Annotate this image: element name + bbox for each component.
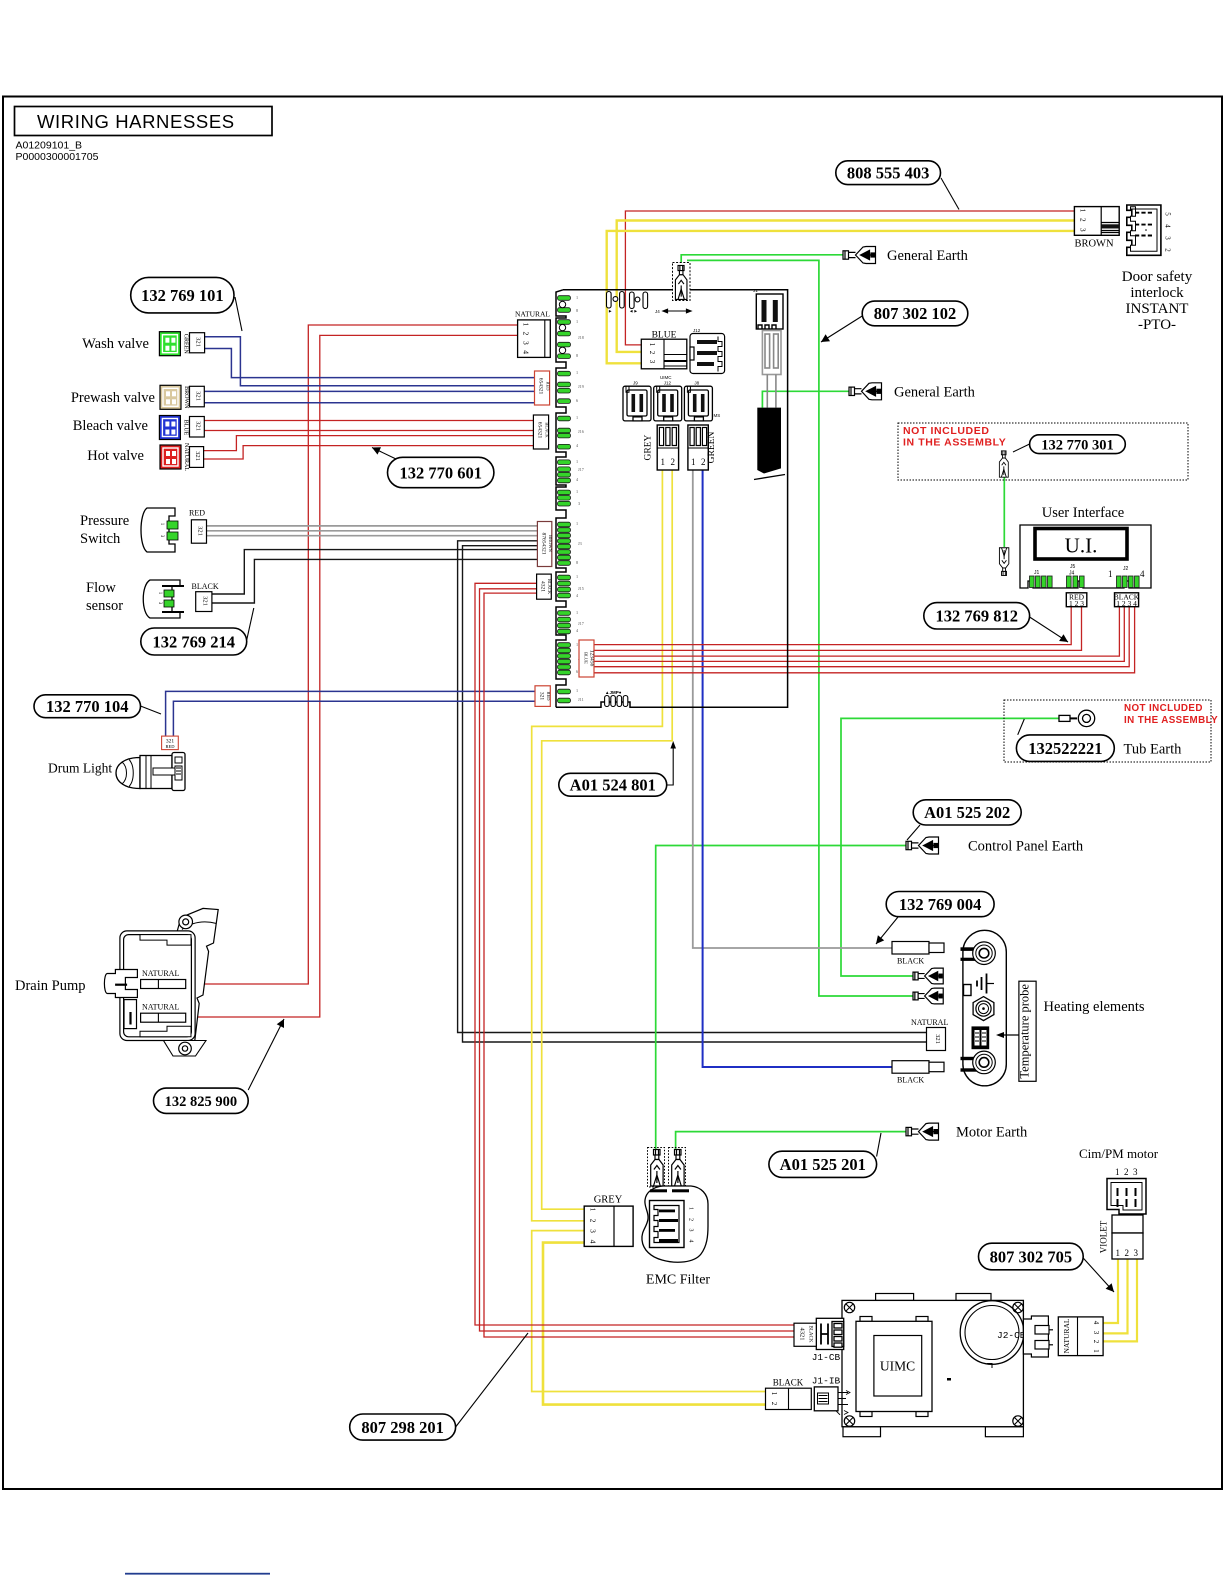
svg-text:3: 3 <box>1079 228 1088 232</box>
svg-text:2: 2 <box>1164 248 1172 252</box>
receptacle BLACK blue-wire <box>892 1061 944 1074</box>
svg-text:1: 1 <box>1108 569 1113 579</box>
svg-text:NATURAL: NATURAL <box>911 1018 948 1027</box>
svg-text:RED: RED <box>166 744 176 749</box>
svg-text:NOT INCLUDED: NOT INCLUDED <box>903 425 990 437</box>
svg-text:NOT INCLUDED: NOT INCLUDED <box>1124 703 1203 714</box>
svg-text:3: 3 <box>589 1229 598 1233</box>
svg-text:2: 2 <box>1124 1167 1129 1177</box>
board earth plate (black) <box>757 408 781 474</box>
svg-text:J4: J4 <box>1069 571 1075 577</box>
svg-text:Temperature probe: Temperature probe <box>1018 984 1032 1079</box>
board pin hole circles <box>559 301 565 353</box>
svg-text:1: 1 <box>576 574 578 579</box>
svg-text:1: 1 <box>661 457 666 467</box>
flow sensor pin box 321 <box>196 592 212 612</box>
connector BLACK 4321 j1cb <box>794 1323 816 1346</box>
svg-text:4321: 4321 <box>799 1328 806 1341</box>
leader 808 555 403 <box>941 178 959 210</box>
svg-text:Bleach valve: Bleach valve <box>73 418 148 434</box>
leader 132522221 <box>1018 719 1025 735</box>
board connector below J1 <box>762 331 781 408</box>
part oval 132 769 004 <box>886 892 994 917</box>
title box WIRING HARNESSES <box>15 107 273 136</box>
svg-text:U.I.: U.I. <box>1065 534 1098 558</box>
plug terminal up (mates UI) <box>999 548 1008 576</box>
uimc connector J1-IB <box>814 1387 850 1415</box>
plug terminal down (132 770 301) <box>999 451 1008 477</box>
svg-text:BLUE: BLUE <box>652 331 677 341</box>
svg-text:2: 2 <box>1125 1248 1130 1258</box>
bleach valve pin box 321 <box>190 417 205 438</box>
svg-text:132 769 812: 132 769 812 <box>935 607 1018 626</box>
svg-text:Control Panel Earth: Control Panel Earth <box>968 839 1084 855</box>
svg-text:J17: J17 <box>578 621 584 626</box>
svg-text:NATURAL: NATURAL <box>515 310 550 319</box>
control panel earth terminal <box>906 837 939 854</box>
wash valve icon <box>159 332 180 356</box>
svg-text:8: 8 <box>576 560 578 565</box>
svg-text:BLACK: BLACK <box>897 957 924 966</box>
svg-text:BLACK: BLACK <box>545 422 550 438</box>
hot valve pin box 321 <box>190 447 204 468</box>
ring terminal tub earth <box>1059 710 1095 726</box>
svg-text:321: 321 <box>194 451 201 461</box>
UI connector RED 123 <box>1066 593 1087 609</box>
drain pump icon <box>104 908 218 1056</box>
wash valve pin box 321 <box>190 333 205 353</box>
footer blue rule <box>125 1573 270 1575</box>
svg-text:J18: J18 <box>578 335 584 340</box>
svg-text:87654321: 87654321 <box>541 533 547 555</box>
connector BROWN 123 door interlock <box>1074 207 1119 250</box>
connector BLACK 654321 (valves) <box>533 415 549 449</box>
svg-text:1: 1 <box>576 688 578 693</box>
svg-text:BLACK: BLACK <box>773 1378 804 1388</box>
svg-text:1: 1 <box>691 457 696 467</box>
UI pins J2 group <box>1117 576 1140 588</box>
svg-text:NATURAL: NATURAL <box>1062 1318 1071 1353</box>
wire green tub earth to heating <box>841 718 1059 976</box>
bleach valve icon <box>159 416 180 440</box>
svg-text:IN THE ASSEMBLY: IN THE ASSEMBLY <box>903 437 1006 449</box>
svg-text:1: 1 <box>688 1207 694 1210</box>
svg-text:3: 3 <box>578 501 580 506</box>
leader A01 524 801 <box>667 744 674 785</box>
svg-text:2: 2 <box>589 1219 598 1223</box>
svg-text:J12: J12 <box>693 328 701 333</box>
connector BROWN 87654321 (pressure/flow) <box>537 522 553 567</box>
svg-text:►: ► <box>608 309 612 314</box>
wire red UI bundle 2 <box>594 607 1082 651</box>
svg-text:3: 3 <box>648 360 656 364</box>
svg-text:GREEN: GREEN <box>707 432 717 464</box>
board fuse (dashed) <box>673 263 691 301</box>
svg-text:Prewash valve: Prewash valve <box>71 390 155 406</box>
leader 132 770 104 <box>141 706 162 714</box>
svg-text:RED: RED <box>546 382 551 392</box>
svg-text:◄►: ◄► <box>629 309 638 314</box>
UI pins J5/J4 group <box>1067 576 1085 588</box>
wire red UI bundle 5 <box>594 607 1129 667</box>
svg-text:6: 6 <box>576 669 578 674</box>
wire grey pressure switch 2 <box>207 530 538 532</box>
svg-text:1: 1 <box>576 295 578 300</box>
svg-text:1: 1 <box>576 319 578 324</box>
heating earth spade 1 <box>913 968 943 984</box>
svg-text:654321: 654321 <box>538 378 544 395</box>
wire yellow door interlock 2 <box>617 221 1075 352</box>
leader 807 302 705 <box>1083 1258 1114 1292</box>
wire red bleach valve 2 <box>204 430 536 432</box>
svg-text:Door safety: Door safety <box>1122 269 1193 285</box>
svg-text:3: 3 <box>522 341 531 345</box>
svg-text:J1: J1 <box>753 288 758 293</box>
svg-text:654321: 654321 <box>537 422 543 439</box>
svg-text:GREY: GREY <box>594 1195 623 1206</box>
svg-text:Pressure: Pressure <box>80 513 129 529</box>
wire blue prewash valve 1 <box>204 390 534 392</box>
svg-text:321: 321 <box>195 337 202 347</box>
svg-text:NATURAL: NATURAL <box>183 443 189 471</box>
svg-text:Motor Earth: Motor Earth <box>956 1125 1028 1141</box>
svg-text:3: 3 <box>1133 1167 1138 1177</box>
connector RED 654321 (valves) <box>535 371 551 405</box>
wire blue prewash valve 2 <box>204 402 534 404</box>
svg-text:2: 2 <box>522 332 531 336</box>
pressure switch icon <box>141 508 178 552</box>
svg-text:1 2 3: 1 2 3 <box>1069 599 1084 608</box>
svg-text:MS: MS <box>714 413 721 418</box>
board edge green pins <box>558 296 571 703</box>
svg-text:GREEN: GREEN <box>183 334 189 355</box>
UI display box U.I. <box>1035 529 1127 560</box>
svg-text:1: 1 <box>1116 1248 1121 1258</box>
svg-text:132522221: 132522221 <box>1028 739 1102 758</box>
leader 807 302 102 <box>821 316 862 342</box>
wire yellow motor 1 <box>1103 1259 1118 1323</box>
wire black flow sensor 1 <box>212 550 538 594</box>
svg-text:BLACK: BLACK <box>897 1076 924 1085</box>
svg-text:RED: RED <box>546 692 551 702</box>
svg-text:UIMC: UIMC <box>660 375 672 380</box>
flow sensor icon <box>143 580 184 618</box>
svg-text:4: 4 <box>1140 569 1145 579</box>
leader 132 769 812 <box>1030 617 1068 642</box>
svg-text:WIRING HARNESSES: WIRING HARNESSES <box>37 111 235 132</box>
wire yellow grey-conn 1 <box>532 470 663 1221</box>
uimc small dot <box>947 1378 951 1381</box>
wire blue green-conn pin2 to heating <box>703 470 892 1067</box>
svg-text:3: 3 <box>1092 1331 1100 1335</box>
part oval 807 302 705 <box>979 1243 1084 1270</box>
svg-text:A01 525 202: A01 525 202 <box>924 803 1010 822</box>
svg-text:4: 4 <box>589 1240 598 1244</box>
wire black flow sensor 2 <box>212 559 538 603</box>
wire natural heater feed 2 <box>463 546 927 1042</box>
part oval 807 302 102 <box>862 301 968 326</box>
svg-text:132 825 900: 132 825 900 <box>165 1094 238 1110</box>
svg-text:J19: J19 <box>578 384 584 389</box>
UI pins J1 group <box>1030 576 1053 588</box>
uimc J2-CB circle <box>960 1301 1024 1368</box>
svg-text:3: 3 <box>1134 1248 1139 1258</box>
leader 132 825 900 <box>248 1019 284 1090</box>
svg-text:BROWN: BROWN <box>1074 239 1114 250</box>
motor connector VIOLET <box>1112 1215 1143 1259</box>
wire green not-included plug link <box>1003 477 1005 547</box>
svg-text:BLUE: BLUE <box>183 420 189 436</box>
svg-text:4: 4 <box>522 350 531 354</box>
svg-text:Heating elements: Heating elements <box>1044 999 1145 1015</box>
svg-text:123456: 123456 <box>589 650 595 667</box>
wire red bleach valve 1 <box>204 420 536 422</box>
leader 132 770 301 <box>1013 444 1030 452</box>
svg-text:5: 5 <box>1164 212 1172 216</box>
heater earth symbol <box>977 974 994 994</box>
part oval A01 525 201 <box>769 1151 877 1177</box>
temperature probe arrow <box>999 1034 1019 1036</box>
wire blue drum light 2 <box>173 701 536 736</box>
svg-text:321: 321 <box>934 1034 941 1044</box>
svg-text:General Earth: General Earth <box>887 248 969 264</box>
svg-text:1: 1 <box>576 610 578 615</box>
part oval 132 770 104 <box>34 695 141 718</box>
board pin labels <box>576 295 584 702</box>
emc plug dashed 1 <box>648 1148 665 1188</box>
wire red drain pump 1 <box>186 325 518 984</box>
svg-text:BLUE: BLUE <box>584 652 589 664</box>
svg-text:1 2 3 4: 1 2 3 4 <box>1116 599 1137 608</box>
dashed box not included 1 <box>898 423 1188 480</box>
wire green fuse to heating earth <box>687 260 914 996</box>
svg-text:2: 2 <box>648 351 656 355</box>
emc filter body <box>642 1186 708 1262</box>
svg-text:J8: J8 <box>694 381 699 386</box>
svg-text:1: 1 <box>576 521 578 526</box>
wire green fuse to general earth 1 <box>681 255 844 263</box>
svg-text:132 769 004: 132 769 004 <box>899 895 982 914</box>
svg-text:1: 1 <box>576 415 578 420</box>
board connector GREY 1 2 <box>657 425 678 470</box>
svg-text:808 555 403: 808 555 403 <box>847 163 930 182</box>
part oval A01 525 202 <box>913 800 1021 825</box>
wire green motor earth <box>676 1132 906 1149</box>
svg-text:2: 2 <box>688 1218 694 1221</box>
wire yellow emc to uimc 1 <box>532 1231 766 1392</box>
part oval 132522221 <box>1016 735 1114 762</box>
UI connector BLACK 1234 <box>1114 593 1140 609</box>
svg-text:-PTO-: -PTO- <box>1138 317 1176 333</box>
wire yellow grey-conn 2 <box>542 470 673 1209</box>
wire red UI bundle 4 <box>594 607 1124 662</box>
wire red drain pump 2 <box>186 335 518 1017</box>
emc dash mark 2 <box>672 1189 689 1192</box>
svg-text:132 769 214: 132 769 214 <box>153 632 236 651</box>
svg-text:Drain Pump: Drain Pump <box>15 978 85 994</box>
wire grey pressure switch 3 <box>207 535 538 537</box>
connector NATURAL 1234 (drain pump) <box>515 310 550 358</box>
svg-text:807 302 102: 807 302 102 <box>874 304 957 323</box>
board bottom JP loops <box>605 696 610 707</box>
svg-text:1: 1 <box>1115 1167 1120 1177</box>
svg-text:4: 4 <box>688 1240 694 1243</box>
leader 132 769 004 <box>876 917 898 944</box>
svg-text:A01209101_B: A01209101_B <box>16 140 83 152</box>
svg-text:1: 1 <box>576 642 578 647</box>
svg-text:GREY: GREY <box>644 434 654 460</box>
hot valve icon <box>160 445 181 469</box>
svg-text:J17: J17 <box>578 467 584 472</box>
receptacle BLACK grey-wire <box>892 942 944 955</box>
svg-text:NATURAL: NATURAL <box>142 1003 179 1012</box>
svg-text:Tub Earth: Tub Earth <box>1124 742 1183 758</box>
emc dash mark 1 <box>650 1189 667 1192</box>
svg-text:132 770 601: 132 770 601 <box>399 463 482 482</box>
dashed box not included 2 (tub earth) <box>1004 700 1211 762</box>
heating element assembly <box>961 930 1007 1086</box>
wire yellow door interlock 3 <box>607 231 1075 363</box>
svg-text:Drum Light: Drum Light <box>48 761 112 776</box>
svg-text:BLACK: BLACK <box>808 1326 813 1343</box>
heater probe block <box>972 1026 990 1049</box>
svg-text:1: 1 <box>770 1392 778 1396</box>
leader 132 769 214 <box>247 608 254 640</box>
wire blue wash valve 1 <box>205 337 535 386</box>
svg-text:4: 4 <box>1092 1321 1100 1325</box>
svg-text:J15: J15 <box>578 586 584 591</box>
board relay K1 <box>607 292 625 309</box>
svg-text:J2-CB: J2-CB <box>997 1330 1026 1341</box>
svg-text:8: 8 <box>576 353 578 358</box>
svg-text:Cim/PM motor: Cim/PM motor <box>1079 1146 1159 1161</box>
UI pin labels <box>1034 564 1129 577</box>
motor connector top <box>1107 1179 1146 1215</box>
leader 807 298 201 <box>456 1333 528 1427</box>
svg-text:J16: J16 <box>578 429 584 434</box>
svg-text:RED: RED <box>189 509 205 518</box>
svg-text:J12: J12 <box>664 381 672 386</box>
svg-text:807 298 201: 807 298 201 <box>361 1418 444 1437</box>
wire red UI bundle 3 <box>594 607 1119 656</box>
board jumper J4 arrow <box>663 309 691 313</box>
svg-text:interlock: interlock <box>1130 285 1184 301</box>
emc inner connector <box>650 1201 685 1248</box>
leader 132 769 101 <box>235 297 242 331</box>
svg-text:J4: J4 <box>655 309 660 314</box>
svg-text:J11: J11 <box>578 697 584 702</box>
svg-text:INSTANT: INSTANT <box>1126 301 1189 317</box>
svg-text:321: 321 <box>539 692 545 701</box>
board connector J1 <box>756 294 783 329</box>
svg-text:321: 321 <box>195 391 202 401</box>
board connector BLUE <box>641 331 687 369</box>
svg-text:J1-CB: J1-CB <box>812 1352 841 1363</box>
part oval A01 524 801 <box>559 773 667 796</box>
svg-text:P0000300001705: P0000300001705 <box>16 151 99 163</box>
drum light pin box 321 RED <box>162 736 179 750</box>
connector BLACK 4321 (uimc reds) <box>537 574 552 599</box>
part oval 807 298 201 <box>350 1414 456 1440</box>
svg-text:2: 2 <box>701 457 706 467</box>
part oval 132 770 601 <box>388 457 494 487</box>
wire yellow emc to uimc 2 <box>543 1243 766 1405</box>
wire red UI bundle 1 <box>594 607 1071 645</box>
main control board outline <box>556 290 566 708</box>
uimc board <box>842 1294 1023 1437</box>
pressure switch pin box 321 <box>191 520 206 543</box>
temperature probe box <box>1019 981 1036 1081</box>
svg-text:J5: J5 <box>1070 564 1076 570</box>
leader 132 770 601 <box>372 448 396 460</box>
wire red uimc j1cb 1 <box>475 583 794 1325</box>
svg-text:sensor: sensor <box>86 598 123 614</box>
svg-text:3: 3 <box>688 1229 694 1232</box>
heating earth spade 2 <box>913 988 943 1004</box>
connector NATURAL 1234 motor <box>1058 1317 1103 1356</box>
svg-text:UIMC: UIMC <box>880 1359 915 1374</box>
part oval 132 769 101 <box>131 277 234 313</box>
connector BLUE 123456 (UI bundle) <box>579 640 595 677</box>
svg-text:J1: J1 <box>1034 570 1040 576</box>
wire blue wash valve 2 <box>205 349 535 378</box>
connector GREY 1234 (emc) <box>584 1195 633 1247</box>
svg-text:Wash valve: Wash valve <box>82 336 149 352</box>
uimc screws <box>844 1302 854 1312</box>
part oval 132 769 812 <box>924 603 1030 629</box>
wire yellow motor 2 <box>1103 1259 1127 1333</box>
svg-text:807 302 705: 807 302 705 <box>990 1247 1073 1266</box>
heater hex nut <box>973 997 994 1021</box>
heater small component <box>964 985 972 996</box>
svg-text:4: 4 <box>1164 224 1172 228</box>
wire grey pressure switch 1 <box>207 525 538 527</box>
uimc connector J1-CB <box>816 1318 843 1349</box>
drum light icon <box>116 753 185 791</box>
svg-text:132 769 101: 132 769 101 <box>141 286 224 305</box>
svg-text:BLACK: BLACK <box>547 579 552 595</box>
wire red hot valve 2 <box>204 446 536 459</box>
svg-text:321: 321 <box>202 596 209 606</box>
svg-text:1: 1 <box>576 489 578 494</box>
part oval 132 825 900 <box>154 1088 249 1113</box>
svg-text:2: 2 <box>1079 218 1088 222</box>
wire yellow motor 3 <box>1103 1259 1137 1341</box>
svg-text:J2: J2 <box>1123 566 1129 572</box>
board relay K2 <box>630 292 648 309</box>
prewash valve icon <box>160 385 181 409</box>
svg-text:8: 8 <box>576 308 578 313</box>
svg-text:NATURAL: NATURAL <box>142 969 179 978</box>
svg-text:1: 1 <box>648 343 656 347</box>
wire red UI bundle 6 <box>594 607 1135 673</box>
svg-text:1: 1 <box>522 323 531 327</box>
svg-text:J1-IB: J1-IB <box>812 1376 841 1387</box>
general earth terminal 2 <box>849 383 882 400</box>
svg-text:J3: J3 <box>578 541 582 546</box>
wire red uimc j1cb 2 <box>480 589 795 1331</box>
svg-text:1: 1 <box>576 370 578 375</box>
leader A01 525 202 <box>907 825 920 840</box>
board connectors J9 J12 J8 row <box>623 386 651 421</box>
wire blue drum light 1 <box>166 691 536 736</box>
wire red uimc j1cb 3 <box>484 593 794 1337</box>
svg-text:1: 1 <box>576 459 578 464</box>
wire natural heater feed 1 <box>458 541 927 1033</box>
svg-text:3: 3 <box>1164 236 1172 240</box>
part oval 132 769 214 <box>141 628 247 655</box>
general earth terminal 1 <box>843 247 876 264</box>
